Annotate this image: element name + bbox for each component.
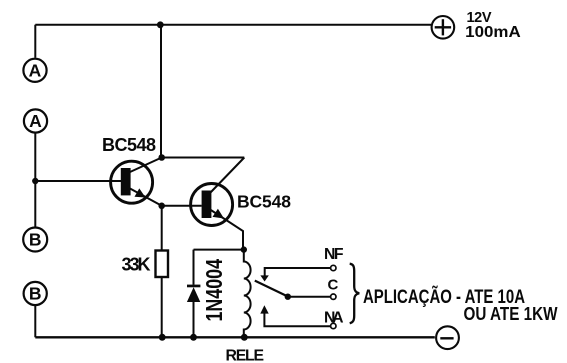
svg-text:33K: 33K [122,255,151,275]
svg-text:B: B [29,230,42,250]
svg-text:B: B [29,284,42,304]
svg-text:BC548: BC548 [102,135,156,155]
svg-text:RELE: RELE [226,347,265,363]
svg-text:OU ATE 1KW: OU ATE 1KW [464,304,558,324]
svg-text:C: C [328,276,339,293]
svg-text:NF: NF [324,246,344,263]
svg-text:NA: NA [324,309,344,326]
svg-text:BC548: BC548 [237,191,291,211]
svg-text:100mA: 100mA [465,24,521,41]
svg-text:A: A [29,111,42,131]
svg-text:A: A [29,60,42,80]
svg-text:1N4004: 1N4004 [201,259,227,322]
